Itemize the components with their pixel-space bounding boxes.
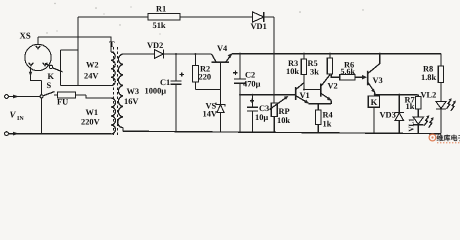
svg-text:VD2: VD2 <box>147 41 163 50</box>
potentiometer RP <box>270 96 289 132</box>
resistor R5 <box>327 54 332 74</box>
wire emitter bus <box>309 103 332 105</box>
arrow on XS neutral wire <box>29 72 32 77</box>
wire VIN top to switch <box>8 96 40 98</box>
svg-text:W2: W2 <box>86 61 99 70</box>
node R2 top <box>194 53 196 55</box>
watermark logo <box>429 134 460 144</box>
svg-text:3k: 3k <box>310 68 319 77</box>
terminal VIN top <box>5 95 19 99</box>
relay coil K <box>368 96 379 133</box>
capacitor C3 <box>247 95 258 133</box>
zener diode VS <box>216 90 225 133</box>
diode VD1 <box>253 12 264 22</box>
wire base line to V1 <box>240 94 295 96</box>
svg-text:VL2: VL2 <box>421 91 437 100</box>
svg-text:VD1: VD1 <box>251 22 267 31</box>
wire V1 collector stem <box>303 74 305 89</box>
svg-text:S: S <box>47 81 52 90</box>
node C3 top <box>252 94 254 96</box>
relay contact K <box>49 65 62 72</box>
svg-text:VL1: VL1 <box>408 118 416 132</box>
svg-text:V1: V1 <box>300 91 310 100</box>
diode VD2 <box>155 50 164 59</box>
node R3 top <box>303 53 305 55</box>
svg-text:W3: W3 <box>127 87 140 96</box>
svg-text:10µ: 10µ <box>255 113 268 122</box>
svg-text:10k: 10k <box>286 67 299 76</box>
node C2 branch <box>239 94 241 96</box>
transformer core <box>114 47 118 136</box>
LED VL2 <box>436 98 456 133</box>
svg-text:维库电子市场网: 维库电子市场网 <box>437 134 460 143</box>
svg-text:C2: C2 <box>245 71 255 80</box>
wire emitter bus to R7 <box>375 94 418 96</box>
node VD3 top <box>398 94 400 96</box>
resistor R1 <box>148 14 180 20</box>
wire output rail <box>232 53 441 55</box>
svg-text:T: T <box>109 40 115 49</box>
node RP top <box>273 94 275 96</box>
svg-text:1k: 1k <box>406 102 415 111</box>
node C2 top <box>239 53 241 55</box>
svg-text:14V: 14V <box>203 110 217 119</box>
svg-text:10k: 10k <box>277 116 290 125</box>
capacitor C1 <box>171 54 184 132</box>
noise specks <box>46 3 363 35</box>
resistor R7 <box>416 95 421 117</box>
svg-text:V4: V4 <box>217 44 228 53</box>
wire R2 bottom to V4 base <box>195 89 220 91</box>
transistor V2 <box>321 75 332 104</box>
resistor R2 <box>192 54 198 90</box>
wire top rail right segment <box>264 16 274 18</box>
svg-text:V3: V3 <box>373 76 383 85</box>
node C1 top <box>175 53 177 55</box>
wire fuse to W1 top <box>86 95 111 98</box>
capacitor C2 <box>233 54 246 133</box>
fuse FU <box>58 92 76 98</box>
diode VD3 <box>395 95 404 134</box>
wire W3 top to VD2 <box>123 53 155 55</box>
svg-text:51k: 51k <box>153 21 166 30</box>
transistor V4 <box>212 53 232 89</box>
svg-text:470µ: 470µ <box>243 80 261 89</box>
node rail drop <box>273 53 275 55</box>
wire XS to transformer W2 top <box>38 37 111 52</box>
transformer winding W1 <box>111 98 116 134</box>
wire XS left prong down <box>31 67 42 81</box>
wire ground rail <box>123 131 441 134</box>
node V1 collector <box>303 89 305 91</box>
resistor R6 <box>331 75 367 80</box>
svg-text:220V: 220V <box>81 118 100 127</box>
svg-text:16V: 16V <box>124 97 138 106</box>
switch S <box>40 92 54 98</box>
resistor R8 <box>438 54 443 102</box>
resistor R4 <box>316 104 321 133</box>
transistor V1 <box>296 83 309 104</box>
wire drop from top rail to XS line <box>77 17 79 86</box>
svg-text:R4: R4 <box>323 111 334 120</box>
LED VL1 <box>413 115 434 133</box>
svg-text:1000µ: 1000µ <box>145 87 167 96</box>
svg-text:R1: R1 <box>156 5 166 14</box>
node V3 collector rail <box>379 53 381 55</box>
wire stub junction y49 <box>61 49 79 51</box>
wire top rail mid segment <box>180 16 253 18</box>
node emitter bus <box>374 94 376 96</box>
svg-text:FU: FU <box>57 98 68 107</box>
svg-text:220: 220 <box>199 73 212 82</box>
wire XS top stub <box>37 37 39 44</box>
node R5 top <box>329 53 331 55</box>
svg-text:V: V <box>10 110 17 120</box>
svg-text:W1: W1 <box>86 108 99 117</box>
wire W2 bottom <box>61 85 112 87</box>
svg-text:K: K <box>371 97 378 107</box>
wire XS neutral down to input line <box>41 81 43 134</box>
wire VD2 to V4 collector <box>164 53 212 55</box>
svg-text:K: K <box>48 72 55 81</box>
transistor V3 <box>368 54 380 93</box>
svg-text:RP: RP <box>279 107 290 116</box>
socket XS <box>25 44 51 70</box>
wire V1 collector to V2 base <box>304 89 320 91</box>
svg-text:5.6k: 5.6k <box>341 67 356 76</box>
wire top rail left segment <box>78 16 148 18</box>
svg-text:1.8k: 1.8k <box>421 73 436 82</box>
wire drop from top rail to output rail and RP <box>273 17 275 103</box>
svg-text:V2: V2 <box>328 82 338 91</box>
wire XS right prong to contact <box>45 64 50 66</box>
svg-text:XS: XS <box>20 31 31 41</box>
wire switch to fuse <box>54 94 86 96</box>
svg-text:VD3: VD3 <box>380 111 396 120</box>
wire VIN bottom to W1 <box>8 133 111 135</box>
resistor R3 <box>301 54 306 84</box>
terminal VIN bottom <box>5 132 19 136</box>
wire K vertical <box>60 50 62 86</box>
svg-text:IN: IN <box>17 116 24 122</box>
wire W3 bottom to ground rail <box>122 128 124 132</box>
wire V3 emitter node <box>374 92 376 96</box>
svg-text:C3: C3 <box>259 104 269 113</box>
transformer winding W3 <box>118 54 123 128</box>
svg-text:24V: 24V <box>84 72 98 81</box>
svg-text:1k: 1k <box>323 120 332 129</box>
transformer winding W2 <box>111 52 115 86</box>
